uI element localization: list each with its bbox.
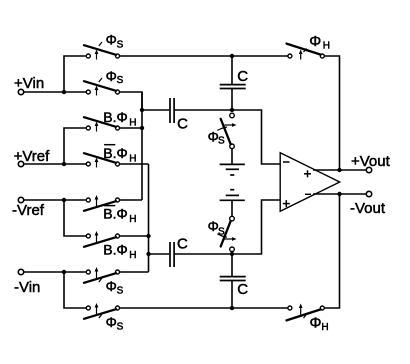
junction -Vref: [62, 198, 66, 202]
svg-text:H: H: [323, 41, 330, 52]
switch S8 phiS row8: [84, 303, 120, 319]
wire row4 to bus B: [120, 163, 149, 165]
capacitor C top feedback: [220, 56, 246, 110]
junction -Vin: [62, 270, 66, 274]
wire bottom summing left: [149, 253, 170, 255]
svg-text:Φ: Φ: [106, 32, 117, 48]
capacitor C bottom sampling: [170, 242, 174, 267]
svg-text:B.Φ: B.Φ: [103, 242, 127, 258]
op-amp plus input sign: [283, 200, 290, 207]
switch S3 B.phiH row3: [84, 117, 120, 131]
label Bbar.phiH row5: [104, 205, 115, 207]
svg-text:C: C: [177, 116, 188, 133]
switch S5 Bbar.phiH row5: [84, 195, 120, 211]
junction bus A summing wire: [140, 108, 144, 112]
junction row3 bus A: [140, 126, 144, 130]
junction -out: [337, 192, 341, 196]
svg-text:H: H: [129, 250, 136, 261]
svg-text:-Vout: -Vout: [350, 200, 386, 217]
terminal +Vref: [18, 161, 23, 166]
wire row5 to bus A: [120, 199, 143, 201]
wire +Vin up to row1: [64, 56, 86, 92]
op-amp minus input sign: [283, 161, 290, 163]
terminal +Vin: [18, 89, 23, 94]
wire -Vin horizontal: [24, 271, 87, 273]
wire phiH top to feedback vertical: [324, 56, 339, 170]
svg-text:S: S: [117, 75, 124, 86]
junction bottom rail feedback cap: [230, 306, 234, 310]
bus B vertical: [148, 164, 150, 272]
junction top summing node: [230, 108, 234, 112]
wire row7 to bus B: [120, 271, 149, 273]
svg-text:B.Φ: B.Φ: [103, 109, 127, 125]
wire top summing right: [175, 110, 280, 164]
wire top summing left: [142, 109, 169, 111]
switch S2 phiS row2: [84, 78, 120, 96]
op-amp U1: [280, 153, 340, 211]
terminal -Vref: [18, 197, 23, 202]
svg-text:Φ: Φ: [106, 68, 117, 84]
switch S4 Bbar.phiH row4: [84, 153, 120, 167]
label Bbar.phiH row4: [104, 144, 115, 146]
svg-text:S: S: [218, 135, 225, 146]
svg-text:B.Φ: B.Φ: [103, 145, 127, 161]
wire row8 to bottom rail: [120, 307, 289, 309]
svg-text:Φ: Φ: [310, 314, 322, 331]
terminal -Vin: [18, 269, 23, 274]
terminal -Vout: [366, 191, 371, 196]
svg-text:C: C: [237, 68, 248, 85]
wire +Vref up to row3: [64, 128, 86, 164]
wire phiH bottom to feedback vertical: [324, 194, 339, 308]
svg-text:H: H: [129, 153, 136, 164]
svg-text:C: C: [177, 236, 188, 253]
svg-text:S: S: [218, 227, 225, 238]
switch S9 phiS top reset: [217, 113, 236, 148]
wire +Vin horizontal: [24, 91, 87, 93]
wire -Vref down to row6: [64, 200, 86, 236]
switch S12 phiH bottom: [287, 304, 325, 321]
svg-text:B.Φ: B.Φ: [103, 206, 127, 222]
switch S10 phiS bottom reset: [217, 216, 236, 251]
svg-text:+Vin: +Vin: [14, 75, 44, 92]
svg-text:Φ: Φ: [309, 33, 321, 50]
wire row6 to bus B: [120, 235, 149, 237]
op-amp plus output sign: [304, 170, 311, 177]
switch S11 phiH top: [287, 44, 325, 60]
junction +Vref: [62, 162, 66, 166]
terminal +Vout: [366, 167, 371, 172]
svg-text:-Vref: -Vref: [12, 202, 45, 219]
wire from bottom ground: [231, 200, 233, 216]
wire row3 to bus A: [120, 127, 143, 129]
switch S1 phiS row1: [84, 42, 120, 60]
svg-text:S: S: [117, 286, 124, 297]
wire +Vref horizontal: [24, 163, 87, 165]
capacitor C bottom feedback: [220, 254, 246, 308]
switch S6 B.phiH row6: [84, 231, 120, 247]
junction bottom summing node: [230, 252, 234, 256]
svg-text:+Vout: +Vout: [351, 153, 391, 170]
bus A vertical: [141, 92, 143, 200]
switch S7 phiS row7: [84, 267, 120, 283]
junction +out: [337, 168, 341, 172]
svg-text:H: H: [129, 117, 136, 128]
svg-text:C: C: [237, 281, 248, 298]
junction +Vin: [62, 90, 66, 94]
ground top: [220, 164, 245, 175]
svg-text:Φ: Φ: [106, 314, 117, 330]
capacitor C top sampling: [170, 98, 174, 123]
svg-text:H: H: [129, 214, 136, 225]
svg-text:Φ: Φ: [106, 278, 117, 294]
wire -Vin down to row8: [64, 272, 86, 308]
wire +out: [313, 169, 366, 171]
svg-text:H: H: [321, 322, 328, 333]
op-amp minus output sign: [305, 193, 311, 195]
svg-text:S: S: [117, 322, 124, 333]
svg-text:S: S: [117, 39, 124, 50]
junction bus B bottom summing wire: [146, 252, 150, 256]
junction row6 bus B: [146, 234, 150, 238]
wire to top ground: [231, 149, 233, 165]
ground bottom: [220, 190, 245, 201]
wire -out: [313, 193, 366, 195]
svg-text:-Vin: -Vin: [14, 279, 40, 296]
wire bottom summing right: [175, 200, 280, 254]
wire row1 to top rail: [120, 55, 289, 57]
junction top rail feedback cap: [230, 54, 234, 58]
wire row2 to bus A: [120, 92, 143, 110]
wire -Vref horizontal: [24, 199, 87, 201]
